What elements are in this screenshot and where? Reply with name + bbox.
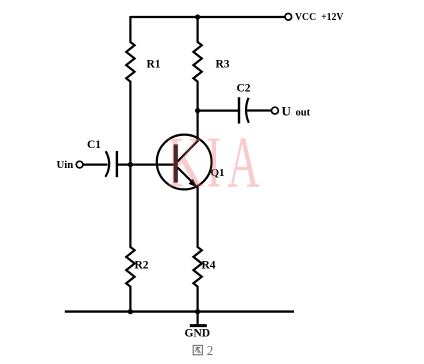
svg-text:GND: GND (185, 328, 211, 340)
svg-text:C2: C2 (237, 83, 251, 95)
svg-text:R3: R3 (216, 59, 230, 71)
svg-text:R2: R2 (135, 259, 149, 271)
svg-text:I: I (206, 122, 221, 203)
svg-text:R1: R1 (147, 59, 161, 71)
svg-text:Uin: Uin (57, 159, 74, 171)
svg-text:A: A (227, 122, 259, 203)
svg-text:VCC +12V: VCC +12V (295, 12, 344, 23)
svg-text:C1: C1 (87, 139, 101, 151)
svg-text:K: K (167, 122, 204, 203)
svg-text:2: 2 (207, 343, 214, 358)
svg-text:R4: R4 (202, 259, 216, 271)
svg-text:U: U (282, 103, 292, 118)
svg-text:out: out (296, 107, 311, 118)
